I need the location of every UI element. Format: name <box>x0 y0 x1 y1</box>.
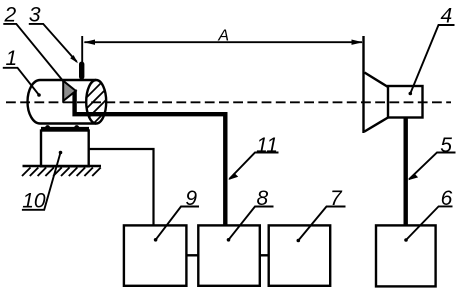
label 11 with leader arrow <box>228 134 278 180</box>
bolt circle left <box>45 125 50 130</box>
cylinder 1 (vibration exciter body) <box>28 80 96 124</box>
label 5 with leader arrow <box>408 134 456 181</box>
svg-text:A: A <box>217 28 229 45</box>
triangle transducer 2 <box>63 81 76 101</box>
label 3 with leader arrow <box>29 4 78 64</box>
box 9 <box>124 225 186 285</box>
label 8 with leader <box>227 187 274 242</box>
sensor 3 (black capsule on top of cylinder) <box>79 62 84 80</box>
hatched end cap of cylinder <box>62 72 156 166</box>
connector box8-box7 <box>260 254 269 256</box>
connector box9-box8 <box>186 254 198 256</box>
box 6 <box>376 225 436 286</box>
wire 11 (thick cable from pickup to box 8) <box>75 90 226 226</box>
saddle bar under cylinder <box>41 127 89 130</box>
ground hatching <box>22 168 101 177</box>
label 6 with leader <box>404 187 452 242</box>
thin wire from block to box 9 <box>89 149 154 226</box>
support block 10 <box>41 131 89 167</box>
box 7 <box>269 225 331 285</box>
centerline (dashed axis) <box>6 101 451 103</box>
dimension line A <box>84 40 363 45</box>
wire 5 (thick cable from horn to box 6) <box>404 118 408 226</box>
label 4 with leader <box>409 5 455 96</box>
label 7 with leader <box>297 187 346 242</box>
ground line <box>23 165 102 168</box>
extension line above sensor <box>81 36 83 62</box>
bolt circle right <box>74 125 79 130</box>
label 10 with leader <box>22 151 62 213</box>
horn driver rectangle <box>388 86 423 118</box>
svg-text:1: 1 <box>5 47 17 70</box>
label 1 with leader <box>3 47 41 97</box>
box 8 <box>198 225 259 285</box>
horn 4 (loudspeaker) : mouth/extension line <box>362 36 364 133</box>
label 9 with leader <box>154 187 199 242</box>
label 2 with leader <box>3 4 63 82</box>
horn trapezoid <box>365 73 389 132</box>
